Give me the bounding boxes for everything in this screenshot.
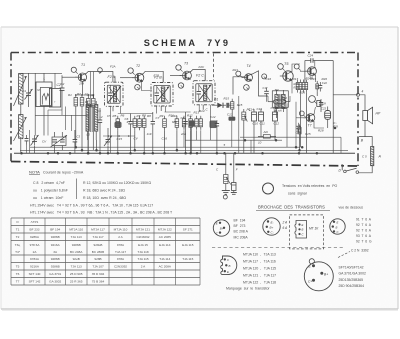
oscillator block M — [36, 73, 62, 106]
brochage list mtja — [243, 252, 276, 284]
thermistor TH1 — [268, 100, 290, 107]
wire T2 collector — [142, 71, 163, 82]
wire coil to switch — [359, 166, 373, 173]
wire seg f — [209, 105, 211, 140]
NOTA columns — [33, 179, 151, 200]
test point TP4 — [135, 85, 140, 90]
wire T3 base — [170, 75, 182, 77]
wire switch drop — [341, 164, 343, 170]
capacitor C6 — [128, 114, 132, 154]
volume potentiometer P1 — [242, 108, 251, 153]
wire antenna top — [21, 72, 36, 74]
electrolytic C12 dark — [210, 121, 217, 128]
brochage separator dashed — [212, 247, 345, 249]
legend text — [282, 184, 338, 196]
wire T4 base — [233, 77, 245, 95]
loudspeaker HP — [363, 107, 381, 124]
oscillator transformer TR1 — [86, 101, 103, 140]
transistor T7 output — [303, 114, 314, 128]
capacitor C17 — [263, 86, 269, 97]
detector diode D1 — [212, 98, 226, 108]
component value labels — [44, 65, 328, 148]
resistor R27 — [316, 81, 319, 96]
resistor R6 — [133, 116, 137, 151]
electrolytic C11 — [259, 109, 264, 136]
NOTA line 4 — [30, 204, 153, 208]
tuning capacitor CV2 — [29, 130, 38, 153]
wire audio low — [240, 136, 333, 138]
electrolytic C10 — [252, 109, 257, 153]
resistor R12 — [182, 116, 185, 147]
capacitor C25 — [296, 123, 302, 135]
label B — [361, 139, 364, 143]
power switch S1 — [339, 168, 359, 173]
test point TP7 — [244, 85, 250, 91]
NOTA line 5 — [30, 211, 173, 215]
wire audio top rail — [305, 60, 333, 62]
resistor R18 — [299, 80, 302, 148]
wire T5 leads — [292, 64, 300, 93]
test point TP3 — [128, 68, 135, 75]
wire seg e — [165, 106, 167, 112]
wire osc down — [44, 106, 62, 136]
capacitor C9 — [215, 120, 219, 153]
coupling capacitor C2 — [57, 75, 65, 110]
wire seg h — [250, 140, 252, 153]
label C2N3392 — [338, 249, 369, 258]
wire long vertical x35 — [34, 73, 37, 135]
brochage list right — [356, 218, 372, 244]
brochage heading — [256, 205, 363, 211]
dual variable capacitor CV3 — [50, 132, 67, 153]
wire seg c — [198, 105, 200, 112]
wire seg b — [156, 106, 158, 114]
supply bus wire — [20, 149, 348, 151]
wire audio rail gap — [305, 61, 339, 154]
transistor T3 — [180, 62, 192, 80]
ferrite antenna coil L2 — [14, 115, 27, 141]
IF transformer F2A — [105, 75, 124, 111]
test point TP5 — [176, 65, 183, 72]
volume control P2 below frame — [216, 153, 238, 190]
test point TP9 — [278, 64, 285, 71]
brochage list bottom right — [339, 266, 366, 289]
pinout D-shape — [221, 256, 237, 275]
wire seg d — [120, 106, 122, 113]
resistor R3 — [87, 96, 91, 154]
transistor T4 — [242, 64, 253, 82]
resistor R13 — [195, 116, 198, 140]
wire T6 leads — [300, 71, 316, 82]
transistor T1 — [75, 63, 86, 81]
test point TP8 — [262, 74, 267, 79]
ground symbol G2 — [231, 193, 237, 195]
test point TP10 — [309, 96, 317, 104]
electrolytic C5b dark — [115, 122, 121, 128]
wire mid horizontal — [185, 139, 282, 141]
wire osc sec — [88, 140, 97, 153]
NOTA heading — [29, 170, 84, 175]
pinout circle TO18 — [263, 218, 287, 235]
test point TP12 — [299, 111, 305, 117]
wire speaker return — [359, 120, 372, 146]
wire seg j — [333, 137, 341, 153]
wire seg g — [238, 96, 240, 153]
schematic dash-dot border frame — [11, 53, 358, 167]
wire seg k — [286, 103, 288, 147]
legend test-point circle — [263, 183, 274, 194]
IF transformer F2B — [151, 76, 173, 112]
wire T7 leads — [299, 107, 324, 128]
driver transformer TR2 — [272, 90, 288, 118]
test point TP8b — [236, 71, 242, 77]
wire seg a — [109, 106, 111, 153]
trimmer CT3 — [104, 128, 112, 153]
resistor R7 — [138, 116, 142, 131]
wire T1 base — [62, 76, 77, 78]
test point TP2 — [98, 68, 103, 74]
wire antenna link — [20, 104, 22, 115]
wire speaker feed — [333, 90, 365, 111]
test point TP6 — [178, 83, 183, 88]
wire stage1 top — [75, 94, 94, 96]
tuner block 2 — [49, 73, 60, 107]
capacitor C21 — [319, 99, 323, 112]
test point TP1 — [71, 67, 78, 74]
title SCHEMA 7Y9 — [144, 38, 231, 48]
resistor R8 — [142, 116, 146, 153]
test point TP11 — [294, 64, 300, 71]
resistor R4 — [92, 96, 96, 151]
resistor R10 — [175, 116, 179, 151]
resistor R9 — [163, 116, 167, 153]
brochage list left — [234, 219, 249, 240]
ground symbol G1 — [222, 191, 230, 195]
ground bus wire — [14, 152, 355, 154]
capacitor C5 — [98, 108, 102, 153]
resistor R15 — [231, 99, 234, 117]
wire T1 collector — [85, 72, 113, 83]
resistor R16 horizontal — [258, 135, 276, 138]
resistor R21 — [298, 124, 301, 150]
resistor R2 — [80, 95, 84, 151]
wire stage1 vlines — [91, 72, 94, 99]
capacitor C14 — [229, 117, 236, 148]
resistor R20 — [305, 80, 308, 154]
pinout circle TO18 first — [213, 220, 229, 236]
resistor R1 — [74, 95, 78, 148]
capacitor C12 below frame — [232, 153, 236, 192]
wire T2 emitter — [142, 82, 153, 91]
label CV — [42, 139, 47, 143]
wire T2 base — [120, 77, 134, 79]
resistor R14 — [199, 116, 202, 153]
wire seg l — [266, 97, 268, 101]
table cell text — [15, 220, 194, 284]
capacitor C13 — [226, 103, 230, 108]
capacitor C24 — [308, 54, 314, 63]
pinout circle TO5 — [330, 219, 345, 234]
marquage note — [226, 287, 270, 291]
capacitor C7 — [151, 112, 155, 153]
table grid — [11, 218, 200, 285]
resistor R5 — [116, 116, 120, 153]
transistor T6 output — [305, 67, 317, 80]
capacitor C3 — [73, 130, 81, 153]
capacitor C22 — [318, 81, 327, 92]
capacitor dark under F2C — [189, 120, 195, 153]
IF transformer F2C — [193, 74, 215, 110]
wire T1 emitter — [78, 81, 84, 95]
ferrite antenna coil L1 — [14, 74, 27, 107]
tuning link dashed line — [213, 54, 215, 81]
tuning capacitor CV1 — [23, 73, 33, 107]
pinout TO126 dashed box — [290, 215, 324, 249]
antenna coil A — [362, 147, 382, 166]
transistor T5 driver — [280, 62, 293, 81]
wire antenna bottom — [20, 138, 22, 153]
resistor R19 — [302, 80, 305, 93]
wire T3 collector — [190, 70, 205, 81]
electrolytic C23 — [321, 107, 331, 129]
wire T7 collector down — [268, 96, 299, 147]
transistor T2 — [132, 64, 144, 82]
resistor R17 — [296, 80, 299, 93]
wire if row top — [103, 112, 191, 137]
AGC bus wire — [30, 146, 300, 148]
label R25R26 — [294, 82, 299, 90]
wire T4 collector — [252, 71, 269, 96]
capacitor C8 — [183, 112, 187, 153]
capacitor small left — [25, 135, 29, 153]
resistor R11 — [189, 116, 193, 153]
capacitor C21b — [317, 101, 327, 107]
junction dots — [20, 127, 336, 155]
jack J1 — [223, 195, 227, 199]
pinout big circle — [304, 259, 333, 291]
wire seg i — [35, 107, 87, 132]
electrolytic C12a — [273, 109, 288, 141]
